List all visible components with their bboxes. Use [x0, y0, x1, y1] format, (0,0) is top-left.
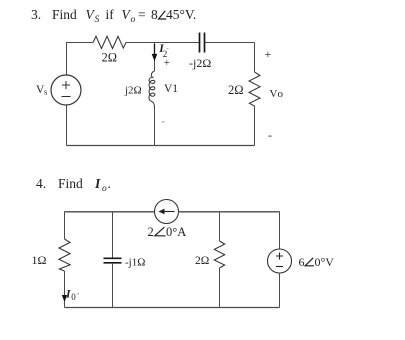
current label I2	[158, 43, 167, 59]
2&#937; branch upper wire	[219, 212, 221, 242]
svg-text:2Ω: 2Ω	[195, 255, 209, 267]
angle symbol in title 3	[159, 11, 167, 19]
svg-text:8: 8	[151, 7, 158, 22]
resistor 2&#937; (top horizontal)	[93, 36, 126, 48]
svg-text:+: +	[164, 57, 170, 69]
svg-text:j2Ω: j2Ω	[124, 84, 142, 96]
right branch upper wire	[279, 212, 281, 250]
wire top right	[205, 42, 255, 44]
wire top middle	[126, 42, 199, 44]
source label 2 angle 0 A	[148, 225, 187, 239]
svg-text:2Ω: 2Ω	[228, 83, 244, 97]
svg-text:0°V: 0°V	[315, 255, 335, 269]
inductor j2&#937;	[149, 71, 155, 108]
svg-text:o: o	[102, 184, 107, 194]
svg-text:-j2Ω: -j2Ω	[189, 56, 211, 70]
middle branch lower wire	[112, 263, 114, 308]
svg-text:3.: 3.	[31, 7, 41, 22]
current label Io	[65, 289, 79, 303]
right branch lower wire	[279, 273, 281, 308]
svg-text:+: +	[265, 47, 272, 61]
current source 2&#8736;0&#176;A	[155, 200, 179, 224]
problem 3 title	[31, 7, 196, 25]
svg-text:0: 0	[71, 292, 76, 302]
bottom wire (problem 4)	[65, 307, 280, 309]
resistor 1&#937;	[59, 239, 70, 271]
svg-text:1Ω: 1Ω	[32, 253, 47, 267]
middle branch upper wire	[112, 212, 114, 259]
voltage source Vs	[51, 75, 81, 105]
svg-text:-: -	[268, 128, 272, 142]
svg-text:s: s	[44, 87, 47, 97]
svg-text:-j1Ω: -j1Ω	[125, 257, 145, 269]
2&#937; branch lower wire	[219, 268, 221, 308]
svg-text:2: 2	[148, 225, 154, 239]
bottom wire (problem 3)	[67, 145, 255, 147]
left branch lower wire + arrow Io	[62, 271, 67, 308]
wire middle branch lower	[154, 108, 156, 146]
svg-text:2Ω: 2Ω	[102, 51, 118, 65]
svg-text:Vо: Vо	[270, 88, 284, 100]
svg-text:=: =	[138, 7, 146, 22]
wire top-left corner	[67, 43, 94, 76]
svg-text:4.: 4.	[36, 176, 46, 191]
voltage source 6&#8736;0&#176;V	[268, 249, 292, 273]
svg-text:0°A: 0°A	[166, 225, 186, 239]
wire right vertical upper	[254, 43, 256, 73]
svg-text:.: .	[108, 176, 111, 191]
svg-text:o: o	[131, 15, 136, 25]
svg-text:if: if	[106, 7, 115, 22]
wire middle branch upper + current arrow I2	[152, 43, 158, 72]
top wire right (problem 4)	[179, 211, 280, 213]
wire below source	[66, 105, 68, 146]
svg-text:45°V.: 45°V.	[166, 7, 196, 22]
capacitor -j2&#937; (series, top)	[200, 33, 205, 53]
svg-text:S: S	[95, 15, 100, 25]
scan artifact dots	[162, 48, 169, 123]
svg-text:V1: V1	[164, 83, 178, 95]
svg-text:Find: Find	[58, 176, 83, 191]
problem 4 title	[36, 176, 111, 194]
top wire left (problem 4)	[65, 211, 155, 213]
wire right vertical lower	[254, 106, 256, 146]
svg-text:I: I	[94, 176, 101, 191]
resistor 2&#937; (right vertical)	[249, 72, 260, 106]
svg-text:Find: Find	[52, 7, 77, 22]
capacitor -j1&#937;	[104, 258, 122, 263]
left branch upper wire	[64, 212, 66, 240]
source label 6 angle 0 V	[299, 255, 335, 269]
svg-text:6: 6	[299, 255, 305, 269]
resistor 2&#937; (problem 4)	[214, 241, 224, 268]
svg-text:I: I	[65, 289, 71, 301]
